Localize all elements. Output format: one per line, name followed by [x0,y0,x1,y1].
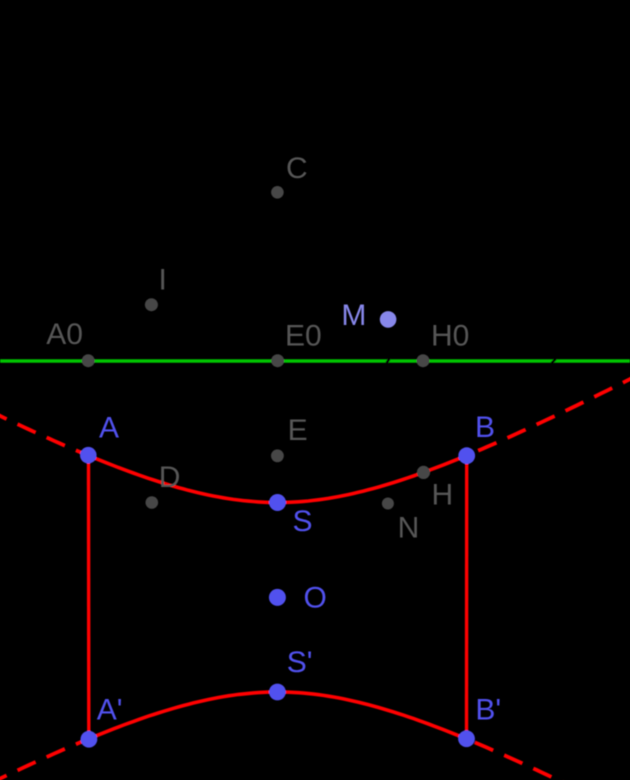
point S dot [269,494,286,511]
segment A-A' vertical red [87,455,91,739]
svg-text:N: N [398,511,420,544]
point C dot [271,186,284,199]
svg-text:O: O [304,582,327,615]
point S' dot [269,684,286,701]
point E dot [271,449,284,462]
svg-text:H: H [432,479,454,512]
hyperbola lower branch dashed right of B' [467,739,567,780]
point D dot [146,496,159,509]
svg-text:B: B [475,411,495,444]
hyperbola upper branch solid arc A-S-B [88,456,466,503]
point A0 dot [82,354,95,367]
hyperbola lower branch solid arc A'-S'-B' [89,692,467,739]
svg-text:A0: A0 [46,318,83,351]
svg-text:B': B' [475,693,501,726]
hyperbola upper branch dashed right of B [467,376,630,455]
svg-text:M: M [341,299,366,332]
svg-text:E0: E0 [285,320,322,353]
point A dot [80,447,97,464]
hyperbola upper branch dashed left of A [0,413,88,456]
point H0 dot [417,354,430,367]
point B' dot [458,730,475,747]
svg-text:A: A [99,411,119,444]
svg-text:S: S [293,505,313,538]
svg-text:H0: H0 [431,319,469,352]
svg-text:I: I [159,263,167,296]
svg-text:S': S' [287,646,313,679]
hyperbola lower branch dashed left of A' [0,739,89,780]
point E0 dot [271,354,284,367]
svg-text:D: D [159,461,181,494]
green line through A0, E0, H0 [0,359,630,363]
point H dot [417,466,430,479]
svg-text:E: E [288,414,308,447]
point B dot [458,447,475,464]
point I dot [145,298,158,311]
svg-text:C: C [286,152,308,185]
point N dot [382,498,394,510]
point M dot [380,311,397,328]
point O dot [269,589,286,606]
point A' dot [81,731,98,748]
segment B-B' vertical red [465,456,469,739]
svg-text:A': A' [97,693,123,726]
notch in green line at x=554 [551,358,556,363]
notch in green line at x=388 [387,358,390,363]
